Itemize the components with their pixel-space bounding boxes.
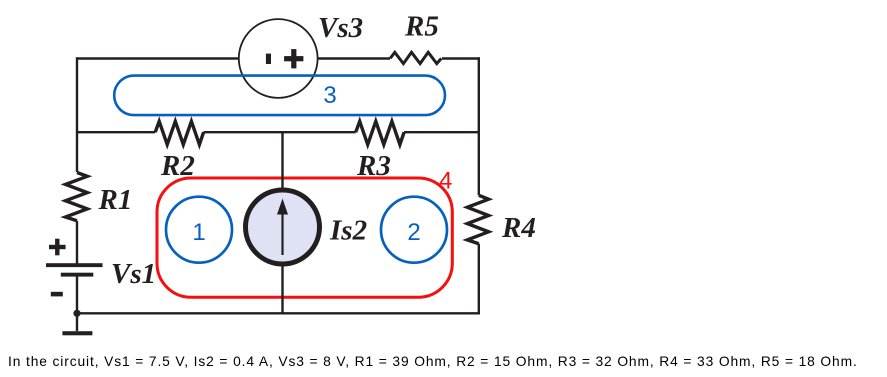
svg-text:R5: R5 xyxy=(404,11,439,43)
svg-text:Is2: Is2 xyxy=(329,215,367,247)
svg-text:R2: R2 xyxy=(160,150,195,182)
svg-text:Vs1: Vs1 xyxy=(111,258,156,290)
svg-text:4: 4 xyxy=(439,168,452,195)
svg-text:3: 3 xyxy=(323,82,336,109)
svg-text:Vs3: Vs3 xyxy=(318,12,363,44)
svg-text:1: 1 xyxy=(192,219,205,246)
svg-text:R1: R1 xyxy=(98,184,133,216)
svg-text:2: 2 xyxy=(407,219,420,246)
svg-text:R4: R4 xyxy=(501,212,536,244)
svg-text:R3: R3 xyxy=(356,150,391,182)
